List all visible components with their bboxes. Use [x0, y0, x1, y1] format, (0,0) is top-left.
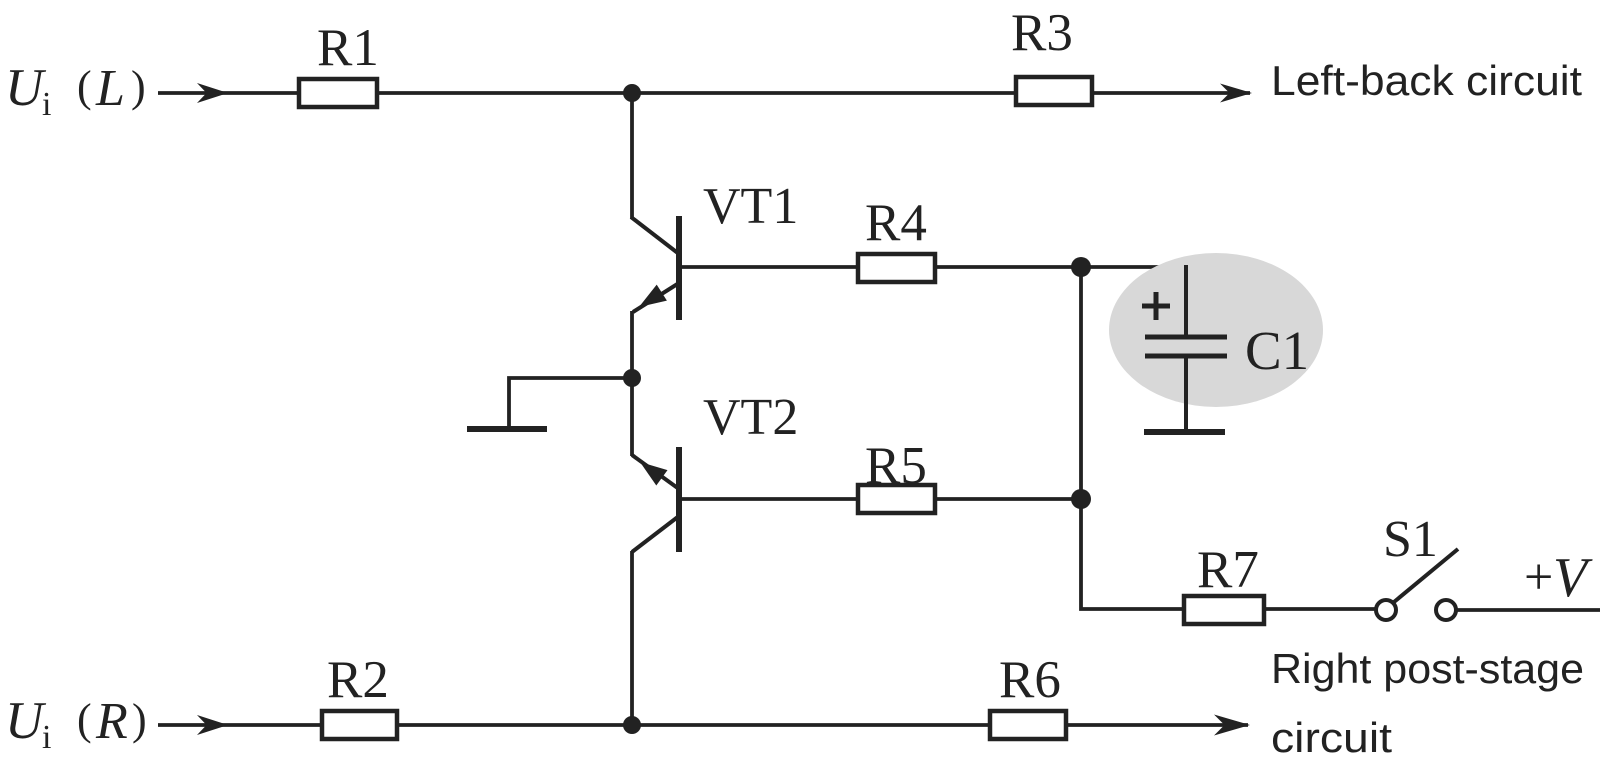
svg-text:R: R	[95, 693, 128, 750]
node label Ui(R)	[5, 692, 147, 756]
resistor R3	[1011, 4, 1092, 105]
output arrow left-back	[1092, 84, 1252, 103]
wire VT1 base to R4	[679, 265, 858, 269]
input arrow left channel	[158, 83, 299, 103]
svg-text:R5: R5	[865, 437, 927, 495]
svg-text:VT1: VT1	[703, 178, 798, 235]
ground below C1	[1144, 429, 1225, 435]
resistor R7	[1184, 541, 1264, 624]
node label Ui(L)	[5, 59, 146, 123]
svg-text:(: (	[77, 695, 92, 744]
resistor R5	[858, 437, 935, 513]
wire node A down to VT1 collector	[630, 93, 634, 219]
supply label +V	[1524, 547, 1593, 609]
transistor VT1	[631, 178, 798, 320]
svg-text:): )	[131, 62, 146, 111]
transistor VT2	[632, 389, 798, 552]
wire node B down to node C	[1079, 267, 1083, 499]
wire node C down and right to R7	[1081, 499, 1184, 609]
resistor R2	[322, 651, 397, 739]
wire R5 to node C	[935, 497, 1081, 501]
wire VT1 emitter down to base junction	[630, 311, 634, 378]
svg-text:Left-back circuit: Left-back circuit	[1271, 57, 1582, 104]
wire R2 to R6	[397, 723, 990, 727]
svg-text:R6: R6	[999, 651, 1061, 709]
wire VT2 collector down to bottom rail	[630, 551, 634, 725]
wire base junction down to VT2 emitter	[630, 378, 634, 456]
switch S1	[1376, 511, 1458, 620]
svg-text:): )	[132, 695, 147, 744]
resistor R4	[858, 194, 935, 282]
input arrow right channel	[158, 715, 322, 735]
svg-text:S1: S1	[1383, 511, 1438, 568]
wire R1 to R3	[377, 91, 1016, 95]
node A junction top rail	[623, 84, 641, 102]
svg-text:R7: R7	[1197, 541, 1259, 599]
svg-text:Right post-stage: Right post-stage	[1271, 645, 1584, 692]
output arrow right post-stage	[1066, 715, 1250, 736]
wire R4 to node B and on to C1	[935, 265, 1186, 269]
svg-text:R3: R3	[1011, 4, 1073, 62]
node base junction of VT1/VT2	[623, 369, 641, 387]
svg-text:U: U	[5, 59, 47, 117]
svg-text:VT2: VT2	[703, 389, 798, 446]
node D junction bottom rail	[623, 716, 641, 734]
svg-text:(: (	[77, 62, 92, 111]
resistor R6	[990, 651, 1066, 739]
svg-text:+: +	[1524, 549, 1553, 606]
svg-text:R2: R2	[327, 651, 389, 709]
wire VT2 base to R5	[679, 497, 858, 501]
svg-text:V: V	[1553, 547, 1593, 609]
ground bar at base	[467, 426, 547, 432]
wire base junction to ground stub	[509, 378, 632, 427]
svg-text:R1: R1	[317, 19, 379, 77]
svg-text:R4: R4	[865, 194, 927, 252]
svg-text:L: L	[95, 60, 125, 117]
node B junction R4 rail	[1071, 257, 1091, 277]
capacitor C1 highlighted	[1109, 253, 1323, 431]
wire R7 to switch S1	[1264, 607, 1375, 611]
svg-text:U: U	[5, 692, 47, 750]
wire S1 to +V	[1457, 608, 1600, 612]
node C junction R5 rail	[1071, 489, 1091, 509]
svg-text:circuit: circuit	[1271, 714, 1392, 761]
resistor R1	[299, 19, 379, 107]
label Right post-stage circuit	[1271, 645, 1584, 761]
svg-text:i: i	[42, 719, 51, 756]
svg-text:C1: C1	[1245, 320, 1309, 381]
svg-text:i: i	[42, 86, 51, 123]
